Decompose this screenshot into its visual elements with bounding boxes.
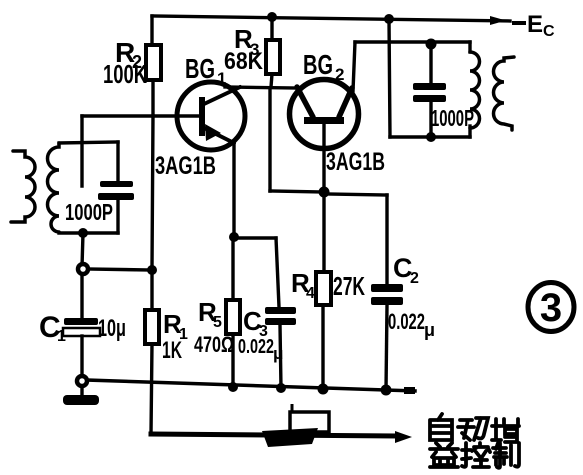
svg-text:2: 2	[335, 65, 344, 84]
svg-text:BG: BG	[185, 53, 215, 84]
svg-text:3: 3	[540, 286, 562, 330]
svg-text:1: 1	[57, 328, 66, 345]
svg-text:2: 2	[410, 270, 419, 287]
svg-text:27K: 27K	[333, 271, 365, 301]
svg-text:3AG1B: 3AG1B	[326, 148, 385, 176]
svg-text:1: 1	[217, 69, 226, 88]
svg-text:3AG1B: 3AG1B	[155, 152, 216, 180]
svg-text:100K: 100K	[103, 59, 147, 89]
svg-text:10μ: 10μ	[98, 315, 126, 342]
svg-text:4: 4	[306, 285, 315, 302]
svg-text:1K: 1K	[162, 337, 182, 364]
svg-text:5: 5	[213, 314, 222, 331]
svg-text:0.022: 0.022	[388, 309, 425, 334]
svg-text:μ: μ	[424, 320, 435, 340]
svg-text:C: C	[543, 23, 555, 40]
svg-text:μ: μ	[273, 344, 283, 363]
svg-text:BG: BG	[303, 49, 333, 80]
svg-text:1000P: 1000P	[65, 199, 113, 225]
svg-text:E: E	[527, 11, 543, 38]
svg-text:1000P: 1000P	[431, 105, 474, 131]
svg-text:0.022: 0.022	[238, 336, 274, 358]
svg-text:470Ω: 470Ω	[194, 332, 234, 357]
svg-text:68K: 68K	[224, 48, 264, 75]
